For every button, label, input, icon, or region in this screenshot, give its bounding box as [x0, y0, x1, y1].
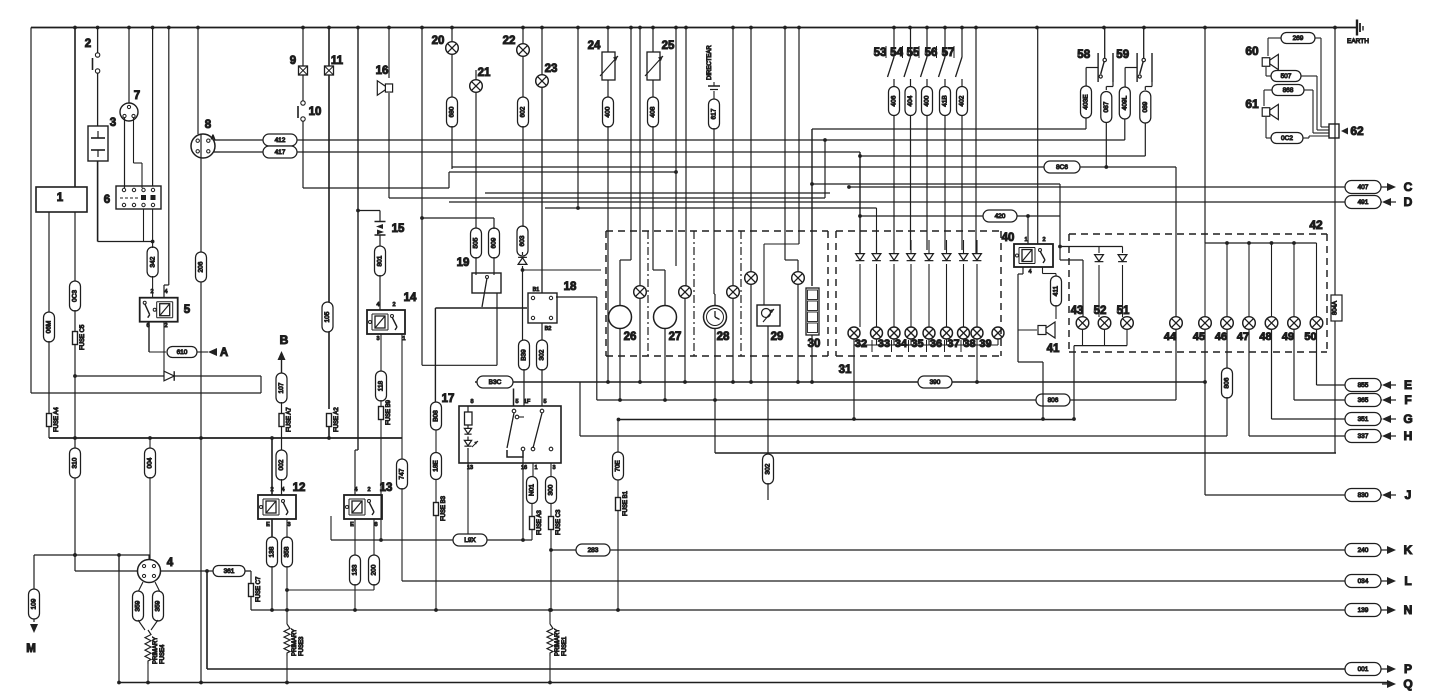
- svg-text:302: 302: [765, 463, 772, 474]
- svg-text:L: L: [1404, 574, 1411, 588]
- svg-text:C: C: [1404, 180, 1413, 194]
- svg-text:406: 406: [891, 95, 898, 106]
- svg-text:19: 19: [457, 257, 470, 269]
- svg-text:358: 358: [284, 546, 291, 557]
- svg-text:50: 50: [1304, 331, 1316, 343]
- svg-text:4: 4: [167, 557, 174, 569]
- svg-text:001: 001: [1358, 666, 1369, 673]
- svg-text:DIRECTEAR: DIRECTEAR: [707, 45, 713, 80]
- svg-text:409L: 409L: [1122, 95, 1129, 110]
- svg-text:26: 26: [624, 331, 637, 343]
- svg-text:FUSE B9: FUSE B9: [386, 399, 392, 425]
- svg-text:13: 13: [467, 465, 473, 471]
- svg-text:14: 14: [404, 292, 417, 304]
- svg-text:403E: 403E: [1083, 94, 1090, 110]
- svg-text:6: 6: [146, 323, 149, 329]
- svg-text:FUSE C5: FUSE C5: [80, 324, 86, 350]
- svg-text:2: 2: [270, 487, 273, 493]
- svg-text:2: 2: [85, 38, 91, 50]
- svg-text:855: 855: [1358, 382, 1369, 389]
- svg-text:31: 31: [839, 364, 852, 376]
- svg-text:54: 54: [890, 47, 903, 59]
- svg-text:2: 2: [1042, 237, 1045, 243]
- svg-text:0C2: 0C2: [1281, 135, 1293, 142]
- svg-text:PRIMARY: PRIMARY: [153, 637, 159, 664]
- svg-text:310: 310: [72, 457, 79, 468]
- svg-text:1: 1: [402, 336, 405, 342]
- svg-text:M: M: [26, 643, 36, 655]
- svg-text:E: E: [350, 522, 354, 528]
- svg-text:FUSE4: FUSE4: [160, 644, 166, 664]
- svg-text:7: 7: [134, 90, 140, 102]
- svg-text:3: 3: [376, 336, 379, 342]
- svg-text:22: 22: [503, 35, 516, 47]
- svg-text:5: 5: [184, 304, 191, 316]
- svg-text:365: 365: [1358, 397, 1369, 404]
- svg-text:61: 61: [1245, 97, 1259, 111]
- svg-text:24: 24: [588, 40, 601, 52]
- svg-text:47: 47: [1237, 331, 1249, 343]
- svg-text:302: 302: [539, 349, 546, 360]
- svg-text:4: 4: [281, 487, 284, 493]
- svg-text:402: 402: [959, 95, 966, 106]
- svg-text:55: 55: [907, 47, 920, 59]
- svg-text:806: 806: [1048, 397, 1059, 404]
- svg-text:53: 53: [874, 47, 887, 59]
- svg-text:G: G: [1403, 412, 1412, 426]
- svg-text:3: 3: [287, 522, 290, 528]
- svg-text:107: 107: [278, 382, 285, 393]
- svg-text:40: 40: [1002, 232, 1015, 244]
- svg-text:56: 56: [925, 47, 938, 59]
- svg-text:420: 420: [995, 213, 1006, 220]
- svg-text:8: 8: [374, 522, 377, 528]
- svg-text:1: 1: [534, 465, 537, 471]
- svg-text:F: F: [1404, 393, 1411, 407]
- svg-text:2: 2: [367, 487, 370, 493]
- svg-text:034: 034: [1358, 578, 1369, 585]
- svg-text:FUSE B1: FUSE B1: [623, 490, 629, 516]
- svg-text:18: 18: [564, 281, 577, 293]
- svg-text:FUSE A7: FUSE A7: [287, 407, 293, 432]
- svg-text:602: 602: [520, 106, 527, 117]
- svg-text:411: 411: [1053, 285, 1060, 296]
- svg-text:603: 603: [519, 235, 526, 246]
- svg-text:H: H: [1404, 429, 1413, 443]
- svg-text:8: 8: [470, 399, 473, 405]
- svg-text:P: P: [1404, 662, 1412, 676]
- svg-text:23: 23: [545, 63, 558, 75]
- svg-text:8: 8: [205, 119, 212, 131]
- svg-text:N: N: [1404, 603, 1413, 617]
- svg-text:400: 400: [605, 106, 612, 117]
- svg-text:4: 4: [1028, 269, 1031, 275]
- svg-text:4: 4: [376, 302, 379, 308]
- svg-text:359: 359: [135, 600, 142, 611]
- svg-text:1F: 1F: [524, 399, 531, 405]
- svg-text:20: 20: [432, 35, 445, 47]
- svg-text:491: 491: [1358, 199, 1369, 206]
- svg-text:505: 505: [473, 237, 480, 248]
- svg-text:105: 105: [324, 311, 331, 322]
- svg-text:49: 49: [1282, 331, 1294, 343]
- svg-text:62: 62: [1350, 124, 1364, 138]
- svg-text:46: 46: [1215, 331, 1227, 343]
- svg-text:J: J: [1405, 488, 1412, 502]
- svg-text:L9X: L9X: [464, 537, 476, 544]
- svg-text:3: 3: [552, 465, 555, 471]
- svg-text:58: 58: [1077, 49, 1090, 61]
- svg-text:830: 830: [1358, 492, 1369, 499]
- svg-text:06M: 06M: [46, 321, 53, 334]
- svg-text:70E: 70E: [615, 460, 622, 472]
- svg-text:A: A: [211, 135, 215, 141]
- svg-text:617: 617: [711, 108, 718, 119]
- svg-text:E: E: [266, 522, 270, 528]
- svg-text:PRIMARY: PRIMARY: [292, 629, 298, 656]
- svg-text:B08: B08: [433, 410, 440, 422]
- svg-text:57: 57: [942, 47, 955, 59]
- svg-text:4: 4: [354, 487, 357, 493]
- svg-text:200: 200: [371, 564, 378, 575]
- svg-text:48: 48: [1259, 331, 1271, 343]
- svg-text:2: 2: [392, 302, 395, 308]
- svg-text:868: 868: [1283, 87, 1294, 94]
- svg-text:51: 51: [1117, 305, 1130, 317]
- svg-text:5: 5: [515, 399, 518, 405]
- svg-text:K: K: [1404, 543, 1413, 557]
- svg-text:B1: B1: [533, 287, 540, 293]
- svg-text:801: 801: [377, 255, 384, 266]
- svg-text:1: 1: [57, 192, 64, 204]
- svg-text:FUSE A4: FUSE A4: [54, 407, 60, 432]
- svg-text:21: 21: [478, 67, 491, 79]
- svg-text:33: 33: [878, 338, 890, 350]
- svg-text:351: 351: [1358, 416, 1369, 423]
- svg-text:59: 59: [1116, 49, 1129, 61]
- svg-text:407: 407: [1358, 184, 1369, 191]
- svg-text:8C6: 8C6: [1056, 164, 1068, 171]
- svg-text:41: 41: [1047, 343, 1060, 355]
- svg-text:60: 60: [1245, 44, 1259, 58]
- svg-text:118: 118: [378, 380, 385, 391]
- svg-text:10: 10: [309, 106, 322, 118]
- svg-text:39: 39: [979, 338, 991, 350]
- svg-text:N01: N01: [529, 484, 536, 496]
- svg-text:18E: 18E: [433, 460, 440, 472]
- svg-text:29: 29: [771, 331, 784, 343]
- svg-text:680: 680: [449, 106, 456, 117]
- svg-text:004: 004: [147, 457, 154, 468]
- svg-text:390: 390: [930, 379, 941, 386]
- svg-text:337: 337: [1358, 433, 1369, 440]
- svg-text:36: 36: [930, 338, 942, 350]
- svg-text:6: 6: [104, 194, 110, 206]
- svg-text:5: 5: [543, 399, 546, 405]
- svg-text:16: 16: [521, 465, 527, 471]
- svg-text:PRIMARY: PRIMARY: [555, 629, 561, 656]
- svg-text:9: 9: [290, 55, 296, 67]
- svg-text:42: 42: [1309, 218, 1323, 232]
- svg-text:32: 32: [855, 338, 867, 350]
- svg-text:B3C: B3C: [489, 379, 502, 386]
- svg-text:FUSE B3: FUSE B3: [441, 495, 447, 521]
- svg-text:361: 361: [224, 568, 235, 575]
- svg-text:52: 52: [1094, 305, 1107, 317]
- svg-text:B39: B39: [521, 349, 528, 361]
- svg-text:25: 25: [662, 40, 675, 52]
- svg-text:240: 240: [1358, 547, 1369, 554]
- svg-text:45: 45: [1193, 331, 1205, 343]
- svg-text:12: 12: [293, 482, 306, 494]
- svg-text:412: 412: [275, 137, 286, 144]
- svg-text:804A: 804A: [1333, 301, 1339, 315]
- svg-text:41B: 41B: [942, 95, 949, 107]
- svg-text:417: 417: [275, 149, 286, 156]
- svg-text:269: 269: [1293, 35, 1304, 42]
- svg-text:FUSE C3: FUSE C3: [556, 509, 562, 535]
- svg-text:13: 13: [380, 482, 393, 494]
- svg-text:Q: Q: [1403, 677, 1412, 691]
- svg-text:2: 2: [150, 289, 153, 295]
- svg-text:139: 139: [1358, 607, 1369, 614]
- svg-text:0C3: 0C3: [72, 290, 79, 302]
- svg-text:609: 609: [491, 237, 498, 248]
- svg-text:FUSE A3: FUSE A3: [537, 510, 543, 535]
- svg-text:283: 283: [588, 547, 599, 554]
- svg-text:44: 44: [1164, 331, 1177, 343]
- svg-text:B: B: [280, 333, 289, 347]
- svg-text:3: 3: [110, 117, 116, 129]
- svg-text:109: 109: [31, 598, 38, 609]
- svg-text:002: 002: [278, 459, 285, 470]
- svg-text:133: 133: [352, 564, 359, 575]
- svg-text:138: 138: [269, 546, 276, 557]
- svg-text:11: 11: [331, 55, 344, 67]
- svg-text:404: 404: [907, 95, 914, 106]
- svg-text:28: 28: [717, 331, 730, 343]
- svg-text:43: 43: [1071, 305, 1084, 317]
- svg-text:38: 38: [963, 338, 975, 350]
- svg-text:E: E: [1404, 378, 1412, 392]
- svg-text:D: D: [1404, 195, 1413, 209]
- svg-text:EARTH: EARTH: [1347, 38, 1369, 45]
- svg-text:342: 342: [149, 256, 156, 267]
- svg-text:37: 37: [947, 338, 959, 350]
- svg-text:087: 087: [1103, 101, 1110, 112]
- svg-text:FUSE A2: FUSE A2: [334, 407, 340, 432]
- svg-text:B2: B2: [545, 326, 552, 332]
- svg-text:408: 408: [650, 106, 657, 117]
- svg-text:16: 16: [376, 65, 389, 77]
- svg-text:4: 4: [164, 289, 167, 295]
- svg-text:610: 610: [177, 349, 188, 356]
- svg-text:806: 806: [1224, 377, 1231, 388]
- svg-text:300: 300: [548, 484, 555, 495]
- svg-text:27: 27: [669, 331, 682, 343]
- svg-text:A: A: [220, 347, 228, 359]
- svg-text:089: 089: [1142, 101, 1149, 112]
- svg-text:206: 206: [198, 261, 205, 272]
- svg-text:35: 35: [911, 338, 923, 350]
- svg-text:2: 2: [164, 323, 167, 329]
- svg-text:30: 30: [808, 338, 821, 350]
- svg-text:1: 1: [1024, 237, 1027, 243]
- svg-text:507: 507: [1281, 73, 1292, 80]
- svg-text:FUSE1: FUSE1: [562, 636, 568, 656]
- svg-text:747: 747: [399, 468, 406, 479]
- svg-text:17: 17: [442, 393, 455, 405]
- svg-text:15: 15: [392, 223, 405, 235]
- svg-text:359: 359: [155, 600, 162, 611]
- svg-text:400: 400: [924, 95, 931, 106]
- svg-text:FUSE3: FUSE3: [299, 636, 305, 656]
- svg-text:34: 34: [895, 338, 908, 350]
- svg-text:FUSE C7: FUSE C7: [256, 576, 262, 602]
